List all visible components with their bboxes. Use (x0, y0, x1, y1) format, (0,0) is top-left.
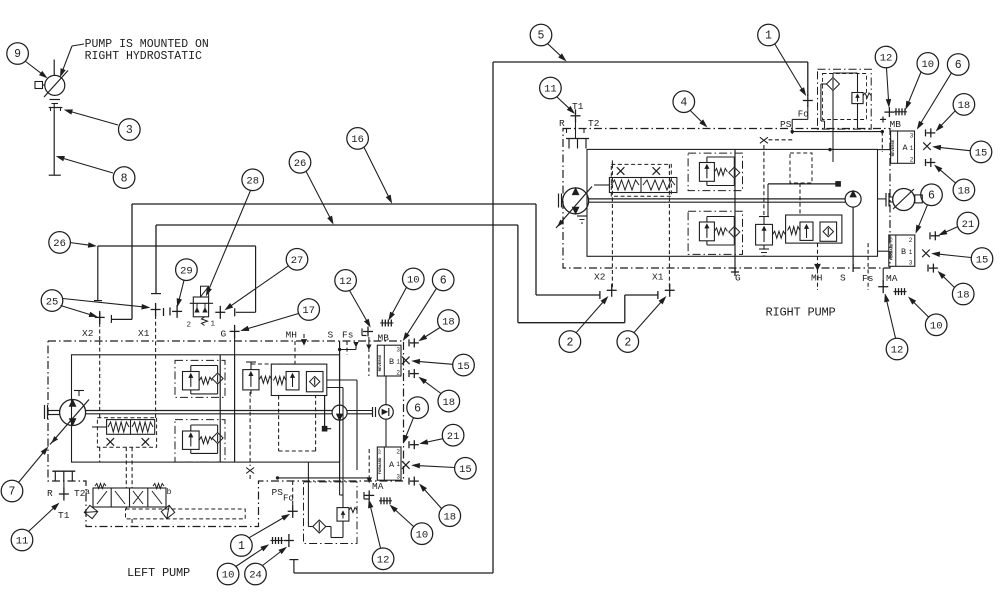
svg-text:6: 6 (414, 402, 421, 415)
svg-text:12: 12 (880, 53, 893, 65)
svg-text:18: 18 (442, 397, 455, 409)
svg-text:RIGHT PUMP: RIGHT PUMP (766, 306, 836, 320)
svg-text:G: G (735, 273, 741, 284)
svg-text:Fo: Fo (798, 110, 809, 120)
svg-text:3: 3 (910, 133, 914, 140)
svg-text:29: 29 (180, 265, 193, 277)
svg-text:A: A (902, 143, 908, 153)
svg-text:15: 15 (457, 361, 470, 373)
svg-text:PS: PS (272, 487, 284, 498)
svg-text:RIGHT HYDROSTATIC: RIGHT HYDROSTATIC (85, 50, 202, 63)
svg-text:S: S (840, 273, 846, 284)
svg-text:1: 1 (210, 321, 215, 329)
svg-text:1: 1 (910, 145, 914, 152)
svg-text:18: 18 (957, 290, 970, 302)
svg-text:6: 6 (955, 59, 962, 72)
svg-text:2: 2 (566, 336, 573, 349)
svg-text:9: 9 (14, 48, 21, 61)
svg-text:TOP: TOP (378, 449, 382, 455)
svg-text:15: 15 (459, 464, 472, 476)
svg-text:X2: X2 (594, 272, 606, 283)
svg-text:10: 10 (930, 321, 943, 333)
svg-text:4: 4 (680, 96, 687, 109)
svg-text:7: 7 (9, 486, 16, 499)
svg-text:Fs: Fs (342, 330, 353, 341)
svg-text:18: 18 (442, 316, 455, 328)
svg-text:17: 17 (302, 305, 315, 317)
svg-text:REVERSE: REVERSE (379, 354, 383, 371)
svg-text:28: 28 (246, 176, 259, 188)
svg-text:2: 2 (396, 370, 400, 377)
svg-text:12: 12 (891, 345, 904, 357)
svg-text:16: 16 (351, 134, 364, 146)
svg-text:MB: MB (378, 333, 390, 344)
svg-text:15: 15 (975, 148, 988, 160)
svg-text:1: 1 (238, 540, 245, 553)
svg-text:10: 10 (921, 59, 934, 71)
svg-text:S: S (328, 330, 334, 341)
svg-text:2: 2 (396, 449, 400, 456)
svg-text:2: 2 (624, 336, 631, 349)
svg-text:2: 2 (187, 322, 192, 330)
svg-text:REVERSE: REVERSE (892, 139, 896, 156)
svg-text:11: 11 (544, 84, 557, 96)
svg-text:MH: MH (286, 330, 297, 341)
svg-text:26: 26 (294, 158, 307, 170)
svg-text:B: B (901, 247, 906, 257)
svg-text:6: 6 (440, 275, 447, 288)
svg-text:3: 3 (126, 124, 133, 137)
svg-text:LEFT PUMP: LEFT PUMP (127, 566, 190, 580)
svg-text:12: 12 (339, 276, 352, 288)
svg-text:25: 25 (46, 296, 59, 308)
svg-text:10: 10 (407, 275, 420, 287)
svg-text:26: 26 (53, 238, 66, 250)
svg-text:X1: X1 (652, 272, 664, 283)
svg-text:6: 6 (928, 190, 935, 203)
svg-text:1: 1 (396, 359, 400, 366)
svg-text:11: 11 (16, 536, 29, 548)
svg-text:1: 1 (765, 30, 772, 43)
svg-text:2: 2 (910, 157, 914, 164)
svg-text:T2: T2 (74, 488, 86, 499)
svg-text:21: 21 (962, 219, 975, 231)
svg-text:18: 18 (958, 186, 971, 198)
svg-text:18: 18 (443, 511, 456, 523)
svg-text:8: 8 (121, 172, 128, 185)
svg-text:3: 3 (909, 260, 913, 267)
svg-text:R: R (559, 118, 565, 129)
svg-text:MA: MA (372, 481, 384, 492)
svg-text:27: 27 (291, 255, 304, 267)
svg-text:24: 24 (249, 570, 262, 582)
svg-text:T1: T1 (572, 101, 584, 112)
svg-text:T2: T2 (588, 118, 600, 129)
svg-text:MH: MH (811, 273, 822, 284)
svg-text:12: 12 (377, 555, 390, 567)
svg-text:FORWARD: FORWARD (890, 243, 894, 260)
svg-text:A: A (389, 460, 395, 470)
svg-text:10: 10 (416, 529, 429, 541)
svg-text:1: 1 (909, 249, 913, 256)
svg-text:R: R (47, 488, 53, 499)
svg-text:a: a (85, 488, 90, 497)
svg-text:FORWARD: FORWARD (379, 457, 383, 474)
svg-text:TOP: TOP (889, 237, 893, 243)
svg-text:X2: X2 (82, 328, 94, 339)
svg-text:MA: MA (886, 273, 898, 284)
svg-text:b: b (167, 488, 172, 497)
svg-text:G: G (221, 329, 227, 340)
svg-text:MB: MB (890, 119, 902, 130)
svg-text:2: 2 (909, 237, 913, 244)
svg-text:3: 3 (396, 347, 400, 354)
svg-text:1: 1 (396, 461, 400, 468)
svg-text:5: 5 (538, 30, 545, 43)
svg-text:10: 10 (222, 570, 235, 582)
svg-text:15: 15 (976, 254, 989, 266)
svg-text:PS: PS (780, 119, 792, 130)
svg-text:T1: T1 (58, 510, 70, 521)
svg-text:21: 21 (447, 431, 460, 443)
svg-text:3: 3 (396, 474, 400, 481)
svg-text:X1: X1 (138, 328, 150, 339)
svg-text:B: B (389, 357, 394, 367)
svg-text:18: 18 (958, 100, 971, 112)
